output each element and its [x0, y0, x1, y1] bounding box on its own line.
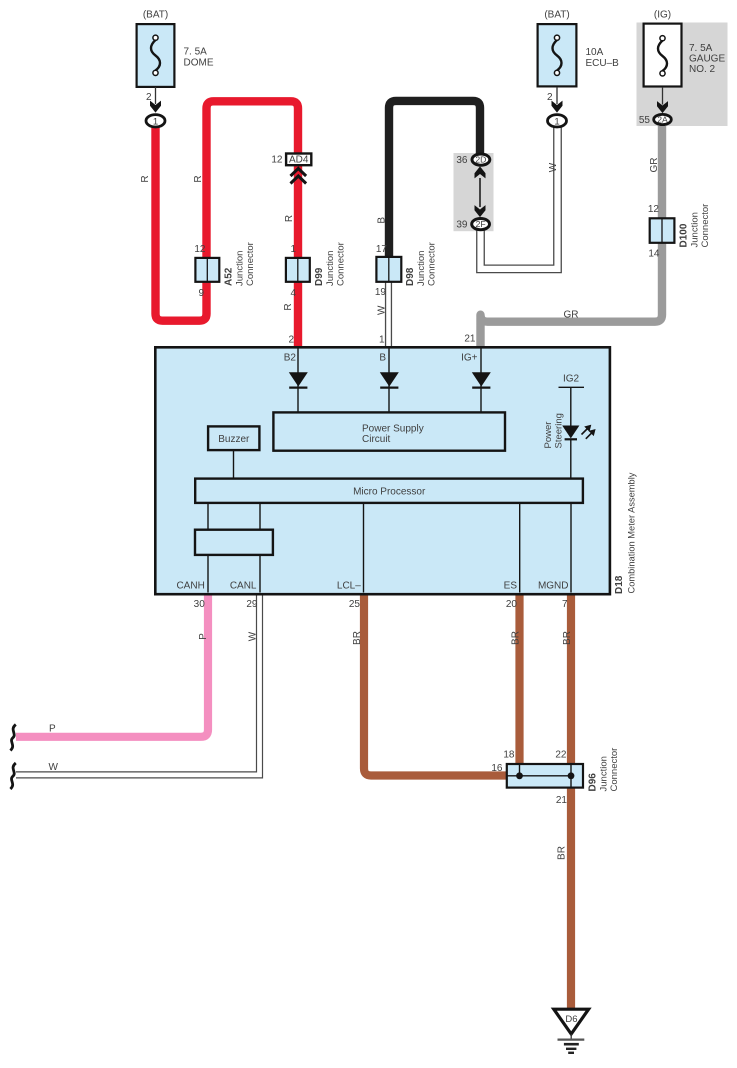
svg-text:IG+: IG+	[461, 353, 478, 364]
svg-text:CANL: CANL	[230, 581, 257, 592]
svg-text:(IG): (IG)	[654, 10, 671, 21]
svg-text:25: 25	[349, 599, 361, 610]
svg-text:(BAT): (BAT)	[544, 10, 569, 21]
svg-text:18: 18	[503, 750, 515, 761]
svg-text:ES: ES	[504, 581, 518, 592]
svg-text:14: 14	[648, 249, 660, 260]
svg-text:Power: Power	[543, 422, 554, 449]
svg-text:2F: 2F	[476, 219, 486, 229]
svg-text:D99: D99	[314, 267, 325, 286]
svg-text:17: 17	[376, 244, 388, 255]
svg-text:21: 21	[464, 334, 476, 345]
svg-text:29: 29	[246, 599, 258, 610]
svg-text:BR: BR	[562, 631, 573, 645]
svg-text:Combination Meter Assembly: Combination Meter Assembly	[627, 472, 637, 593]
svg-text:R: R	[140, 175, 151, 182]
svg-text:R: R	[193, 175, 204, 182]
svg-text:Connector: Connector	[336, 242, 347, 286]
svg-text:B: B	[379, 353, 386, 364]
svg-text:19: 19	[375, 287, 387, 298]
svg-text:Junction: Junction	[416, 251, 427, 286]
svg-text:W: W	[548, 162, 559, 172]
svg-text:Connector: Connector	[700, 204, 711, 248]
svg-text:BR: BR	[511, 631, 522, 645]
svg-text:Buzzer: Buzzer	[218, 434, 250, 445]
svg-text:D18: D18	[614, 575, 625, 594]
svg-text:1: 1	[290, 244, 296, 255]
svg-text:DOME: DOME	[184, 58, 214, 69]
svg-text:GR: GR	[564, 309, 579, 320]
svg-text:4: 4	[290, 288, 296, 299]
svg-text:20: 20	[506, 599, 518, 610]
svg-text:MGND: MGND	[538, 581, 569, 592]
svg-text:1: 1	[554, 116, 559, 127]
svg-text:1: 1	[153, 116, 158, 127]
svg-text:2A: 2A	[657, 115, 668, 125]
svg-text:W: W	[248, 631, 259, 641]
svg-text:Junction: Junction	[690, 212, 701, 247]
svg-text:ECU–B: ECU–B	[586, 58, 620, 69]
svg-text:36: 36	[456, 155, 468, 166]
svg-text:2D: 2D	[475, 155, 486, 165]
svg-text:W: W	[377, 305, 388, 315]
svg-text:LCL–: LCL–	[337, 581, 361, 592]
svg-text:CANH: CANH	[176, 581, 204, 592]
svg-text:Steering: Steering	[554, 413, 565, 448]
svg-text:Junction: Junction	[599, 756, 610, 791]
svg-text:2: 2	[146, 92, 152, 103]
svg-text:B2: B2	[284, 353, 297, 364]
svg-text:AD4: AD4	[289, 155, 309, 166]
svg-text:P: P	[49, 724, 56, 735]
svg-text:BR: BR	[557, 846, 568, 860]
svg-text:9: 9	[198, 288, 204, 299]
svg-text:B: B	[377, 217, 388, 224]
svg-text:D6: D6	[565, 1014, 577, 1025]
svg-text:R: R	[283, 303, 294, 310]
svg-text:Power Supply: Power Supply	[362, 423, 424, 434]
svg-text:12: 12	[648, 204, 660, 215]
svg-text:1: 1	[379, 335, 385, 346]
svg-text:A52: A52	[224, 267, 235, 286]
svg-text:Connector: Connector	[427, 242, 438, 286]
svg-text:Micro Processor: Micro Processor	[353, 486, 426, 497]
svg-text:Circuit: Circuit	[362, 434, 391, 445]
svg-text:P: P	[198, 633, 209, 640]
svg-text:39: 39	[456, 220, 468, 231]
svg-text:12: 12	[194, 244, 206, 255]
svg-text:Junction: Junction	[235, 251, 246, 286]
svg-text:55: 55	[639, 115, 651, 126]
svg-text:30: 30	[194, 599, 206, 610]
svg-text:Connector: Connector	[245, 242, 256, 286]
svg-text:IG2: IG2	[563, 374, 580, 385]
svg-text:(BAT): (BAT)	[143, 10, 168, 21]
svg-text:21: 21	[556, 795, 568, 806]
svg-text:2: 2	[547, 92, 553, 103]
svg-text:NO. 2: NO. 2	[689, 64, 716, 75]
svg-text:D100: D100	[679, 223, 690, 247]
svg-text:16: 16	[491, 763, 503, 774]
svg-text:12: 12	[271, 155, 283, 166]
svg-text:GR: GR	[649, 158, 660, 173]
svg-text:22: 22	[555, 750, 567, 761]
svg-text:10A: 10A	[586, 47, 604, 58]
svg-text:7: 7	[562, 599, 568, 610]
svg-text:Connector: Connector	[609, 748, 620, 792]
svg-text:R: R	[284, 215, 295, 222]
svg-text:BR: BR	[352, 631, 363, 645]
svg-text:Junction: Junction	[325, 251, 336, 286]
svg-text:W: W	[49, 762, 59, 773]
svg-text:7. 5A: 7. 5A	[689, 43, 713, 54]
svg-text:D98: D98	[405, 267, 416, 286]
svg-text:7. 5A: 7. 5A	[184, 47, 208, 58]
svg-text:D96: D96	[588, 773, 599, 792]
svg-text:2: 2	[288, 335, 294, 346]
svg-text:GAUGE: GAUGE	[689, 54, 725, 65]
